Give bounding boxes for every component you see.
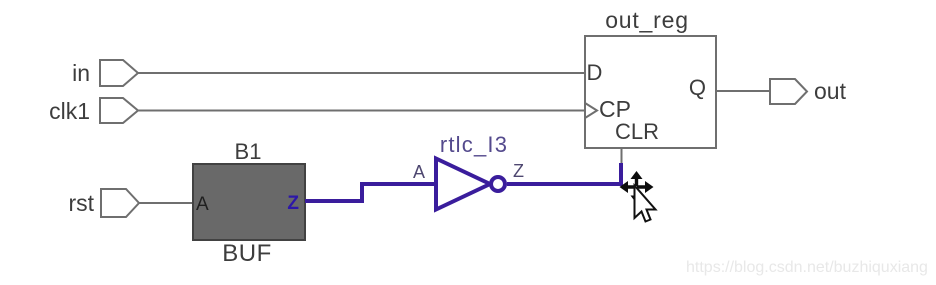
- svg-text:Q: Q: [689, 75, 706, 100]
- svg-text:out: out: [814, 78, 847, 104]
- svg-text:https://blog.csdn.net/buzhiqux: https://blog.csdn.net/buzhiquxiang: [686, 259, 928, 276]
- svg-text:clk1: clk1: [49, 98, 90, 124]
- svg-text:CLR: CLR: [615, 119, 659, 144]
- svg-text:B1: B1: [235, 139, 262, 164]
- svg-text:Z: Z: [513, 161, 524, 181]
- svg-text:D: D: [587, 60, 603, 85]
- svg-text:rtlc_I3: rtlc_I3: [440, 132, 508, 157]
- svg-text:Z: Z: [287, 193, 299, 214]
- svg-text:A: A: [196, 194, 209, 215]
- svg-text:in: in: [72, 60, 90, 86]
- svg-text:out_reg: out_reg: [605, 7, 689, 33]
- svg-text:BUF: BUF: [222, 240, 272, 267]
- svg-text:A: A: [413, 162, 425, 182]
- svg-text:rst: rst: [68, 190, 94, 216]
